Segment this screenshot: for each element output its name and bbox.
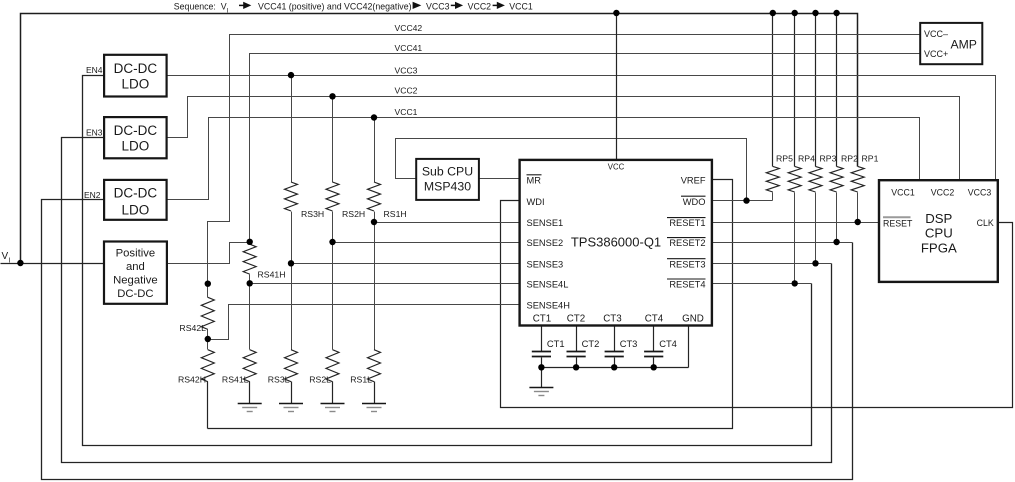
svg-text:SENSE4L: SENSE4L <box>527 280 569 290</box>
svg-text:RESET2: RESET2 <box>669 238 705 248</box>
svg-text:CT2: CT2 <box>582 338 600 349</box>
svg-text:RP4: RP4 <box>798 154 815 164</box>
svg-text:DC-DC: DC-DC <box>114 123 158 138</box>
svg-text:VREF: VREF <box>681 176 706 186</box>
svg-text:and: and <box>126 261 145 273</box>
svg-text:CT3: CT3 <box>620 338 638 349</box>
svg-text:VCC42: VCC42 <box>395 23 423 33</box>
svg-text:RS3L: RS3L <box>268 375 290 385</box>
svg-text:TPS386000-Q1: TPS386000-Q1 <box>571 234 661 249</box>
svg-text:VCC3: VCC3 <box>968 188 992 198</box>
svg-text:RS2H: RS2H <box>342 209 365 219</box>
svg-text:VCC41: VCC41 <box>395 43 423 53</box>
svg-text:FPGA: FPGA <box>921 240 957 255</box>
svg-text:V: V <box>2 251 9 262</box>
svg-text:VCC2: VCC2 <box>468 1 492 11</box>
svg-text:RESET: RESET <box>883 219 913 229</box>
svg-text:Negative: Negative <box>113 274 158 286</box>
svg-text:VCC1: VCC1 <box>509 1 533 11</box>
svg-text:DSP: DSP <box>925 211 952 226</box>
svg-text:VCC3: VCC3 <box>395 65 418 75</box>
svg-text:VCC41 (positive) and VCC42(neg: VCC41 (positive) and VCC42(negative) <box>258 1 412 11</box>
svg-text:RP1: RP1 <box>862 154 879 164</box>
svg-text:VCC+: VCC+ <box>924 49 948 59</box>
svg-text:RS3H: RS3H <box>301 209 324 219</box>
svg-text:RS42H: RS42H <box>178 375 206 385</box>
svg-text:CT2: CT2 <box>567 314 586 325</box>
svg-text:EN4: EN4 <box>86 65 103 75</box>
svg-text:DC-DC: DC-DC <box>114 185 158 200</box>
svg-text:LDO: LDO <box>122 138 150 153</box>
svg-text:RESET1: RESET1 <box>669 218 705 228</box>
svg-text:SENSE1: SENSE1 <box>527 218 564 228</box>
svg-text:VCC1: VCC1 <box>395 107 418 117</box>
svg-text:LDO: LDO <box>122 76 150 91</box>
svg-text:MR: MR <box>527 175 542 185</box>
svg-text:WDI: WDI <box>527 197 545 207</box>
svg-text:RS41H: RS41H <box>258 270 286 280</box>
svg-text:CPU: CPU <box>925 226 953 241</box>
svg-text:EN3: EN3 <box>86 128 103 138</box>
svg-text:CT1: CT1 <box>533 314 552 325</box>
svg-text:RESET4: RESET4 <box>669 280 705 290</box>
svg-text:SENSE4H: SENSE4H <box>527 301 570 311</box>
svg-text:CT4: CT4 <box>659 338 677 349</box>
svg-text:CLK: CLK <box>977 218 994 228</box>
svg-text:Sequence:: Sequence: <box>174 1 216 11</box>
svg-text:I: I <box>9 258 11 265</box>
svg-text:VCC2: VCC2 <box>395 86 418 96</box>
svg-text:I: I <box>227 7 229 14</box>
svg-text:VCC: VCC <box>608 163 625 172</box>
svg-text:WDO: WDO <box>683 197 706 207</box>
svg-text:DC-DC: DC-DC <box>114 61 158 76</box>
svg-text:VCC–: VCC– <box>924 29 948 39</box>
svg-text:VCC1: VCC1 <box>891 188 915 198</box>
svg-text:VCC2: VCC2 <box>931 188 955 198</box>
svg-text:SENSE3: SENSE3 <box>527 259 564 269</box>
svg-text:RS41L: RS41L <box>222 375 249 385</box>
svg-text:GND: GND <box>682 314 704 325</box>
svg-text:RS42L: RS42L <box>179 323 206 333</box>
svg-text:CT3: CT3 <box>603 314 622 325</box>
svg-text:EN2: EN2 <box>84 190 101 200</box>
svg-text:RP2: RP2 <box>841 154 858 164</box>
svg-text:MSP430: MSP430 <box>424 180 471 194</box>
svg-text:CT1: CT1 <box>547 338 565 349</box>
svg-text:AMP: AMP <box>951 38 977 52</box>
svg-text:DC-DC: DC-DC <box>117 288 153 300</box>
svg-text:RESET3: RESET3 <box>669 259 705 269</box>
svg-text:LDO: LDO <box>122 202 150 217</box>
svg-text:RP3: RP3 <box>820 154 837 164</box>
svg-text:Sub CPU: Sub CPU <box>422 165 473 179</box>
svg-text:RS1L: RS1L <box>350 375 372 385</box>
svg-text:SENSE2: SENSE2 <box>527 238 564 248</box>
svg-text:Positive: Positive <box>116 248 156 260</box>
svg-text:VCC3: VCC3 <box>426 1 450 11</box>
svg-text:RS2L: RS2L <box>309 375 331 385</box>
svg-text:RS1H: RS1H <box>384 209 407 219</box>
svg-text:CT4: CT4 <box>645 314 664 325</box>
svg-text:RP5: RP5 <box>776 154 793 164</box>
